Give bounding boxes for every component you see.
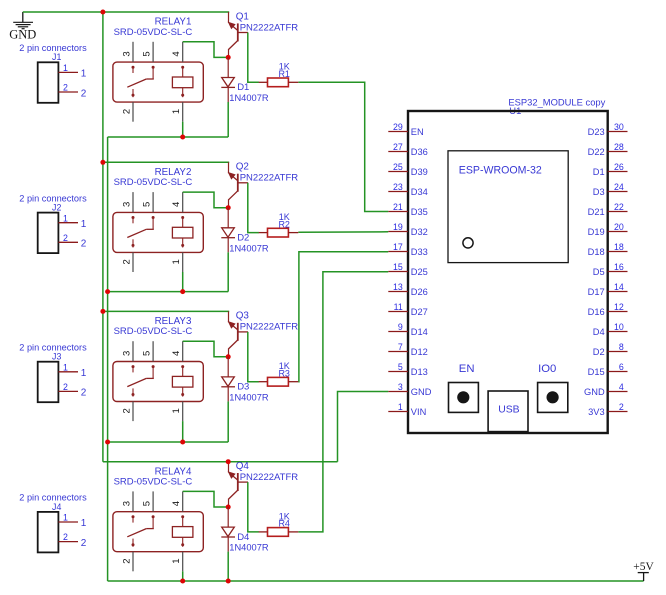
svg-text:GND: GND: [584, 387, 605, 397]
relay K3 pin 3: [121, 341, 133, 361]
ESP32 pin 21 D35: [388, 202, 428, 217]
ESP32 pin 28 D22: [588, 142, 628, 157]
svg-text:1: 1: [63, 513, 68, 523]
svg-text:24: 24: [614, 182, 624, 192]
connector J2 pin 1: [58, 213, 86, 230]
wire relay2 top rail: [103, 161, 229, 163]
svg-text:1: 1: [63, 362, 68, 372]
svg-text:D23: D23: [588, 127, 605, 137]
junction Q3 collector node: [226, 354, 231, 359]
connector J1 labels: [19, 43, 87, 62]
junction relay1 pin1 bottom: [180, 135, 185, 140]
resistor R3 1K: [259, 377, 299, 386]
svg-text:D15: D15: [588, 367, 605, 377]
svg-text:1: 1: [81, 518, 87, 529]
ESP-WROOM-32 pin-1 circle: [463, 238, 473, 248]
svg-text:Q1: Q1: [236, 11, 250, 22]
connector J4 pin 1: [58, 513, 86, 530]
wire net R2 to pin D32: [298, 231, 388, 233]
junction Q4 collector node: [226, 505, 231, 510]
connector J1 pin 1: [58, 63, 86, 80]
svg-text:D26: D26: [411, 287, 428, 297]
svg-text:VIN: VIN: [411, 407, 427, 417]
svg-text:1: 1: [63, 213, 68, 223]
ESP32 pin 18 D18: [588, 242, 628, 257]
resistor R1 labels: [278, 62, 290, 79]
ESP32 pin 1 VIN: [388, 402, 426, 417]
ESP32 pin 19 D32: [388, 222, 428, 237]
connector J1 body: [38, 62, 59, 103]
transistor Q3 labels: [236, 311, 299, 333]
svg-text:2: 2: [121, 558, 132, 563]
svg-text:29: 29: [393, 122, 403, 132]
junction bus A rail3: [100, 309, 105, 314]
relay K1 pin 3: [121, 42, 133, 62]
svg-text:3: 3: [121, 351, 132, 356]
relay K1 coil: [172, 66, 193, 98]
svg-text:7: 7: [398, 342, 403, 352]
diode D1 1N4007R: [221, 57, 235, 102]
svg-text:J1: J1: [52, 52, 61, 62]
svg-text:1N4007R: 1N4007R: [229, 243, 269, 253]
svg-text:USB: USB: [498, 404, 519, 415]
relay K4 coil: [172, 515, 193, 547]
wire relay2 pin1 drop: [182, 272, 184, 292]
relay K2 pin 1: [171, 252, 183, 272]
svg-text:25: 25: [393, 162, 403, 172]
svg-text:1N4007R: 1N4007R: [229, 392, 269, 402]
svg-text:4: 4: [171, 501, 182, 506]
svg-text:D33: D33: [411, 247, 428, 257]
svg-text:IO0: IO0: [538, 363, 556, 375]
wire D4 cathode drop: [227, 552, 229, 581]
wire net R3 to pin D33: [298, 252, 388, 382]
svg-text:PN2222ATFR: PN2222ATFR: [240, 173, 299, 184]
svg-text:D36: D36: [411, 147, 428, 157]
svg-text:D39: D39: [411, 167, 428, 177]
ESP32 pin 9 D14: [388, 322, 428, 337]
relay K3 pin 5: [141, 341, 153, 361]
svg-text:D27: D27: [411, 307, 428, 317]
ESP32 pin 3 GND: [388, 382, 431, 397]
wire vertical GND bus A: [102, 12, 104, 462]
svg-text:30: 30: [614, 122, 624, 132]
ESP32 pin 16 D5: [593, 262, 628, 277]
relay RELAY4 labels: [114, 466, 193, 487]
svg-text:16: 16: [614, 262, 624, 272]
svg-text:D22: D22: [588, 147, 605, 157]
svg-text:5: 5: [141, 501, 152, 506]
svg-text:19: 19: [393, 222, 403, 232]
IO0 button: [538, 363, 568, 412]
svg-text:1: 1: [171, 109, 182, 114]
svg-text:1: 1: [171, 408, 182, 413]
wire relay1 pin1 drop: [182, 122, 184, 137]
junction A top rail: [100, 10, 105, 15]
relay K4 switch contact: [127, 515, 154, 547]
wire GND top rail: [23, 11, 229, 13]
svg-text:28: 28: [614, 142, 624, 152]
relay K1 pin 2: [121, 102, 133, 122]
junction relay4 pin1 bottom: [180, 579, 185, 584]
svg-text:1: 1: [81, 368, 87, 379]
ESP32 pin 14 D17: [588, 282, 628, 297]
wire relay4 top rail: [103, 461, 338, 463]
relay K1 pin 4: [171, 42, 183, 62]
relay K2 pin 5: [141, 192, 153, 212]
svg-text:5: 5: [398, 362, 403, 372]
svg-text:Q2: Q2: [236, 162, 249, 173]
connector J3 pin 2: [58, 382, 86, 399]
ESP-WROOM-32 sub-module: [448, 151, 568, 263]
relay K3 pin 1: [171, 402, 183, 422]
ESP32 pin 23 D34: [388, 182, 428, 197]
connector J4 body: [38, 512, 59, 553]
relay K1 pin 1: [171, 102, 183, 122]
svg-text:PN2222ATFR: PN2222ATFR: [240, 472, 299, 483]
svg-text:D18: D18: [588, 247, 605, 257]
wire Q2 base to R2: [248, 183, 259, 233]
connector J3 labels: [19, 343, 87, 362]
junction Q4 emitter on rail: [226, 459, 231, 464]
svg-text:2: 2: [121, 109, 132, 114]
svg-text:D34: D34: [411, 187, 428, 197]
relay K3 body: [113, 362, 203, 402]
svg-text:2: 2: [81, 388, 87, 399]
svg-text:PN2222ATFR: PN2222ATFR: [240, 22, 299, 33]
ESP32 pin 26 D1: [593, 162, 628, 177]
ESP32 pin 4 GND: [584, 382, 627, 397]
EN button: [449, 363, 479, 412]
svg-text:EN: EN: [459, 363, 475, 375]
relay K4 pin 1: [171, 552, 183, 572]
relay K3 pin 4: [171, 341, 183, 361]
resistor R2 1K: [259, 228, 299, 237]
relay K3 pin 2: [121, 402, 133, 422]
diode D3 labels: [229, 382, 269, 403]
wire Q3 base to R3: [248, 332, 259, 382]
svg-text:5: 5: [141, 351, 152, 356]
resistor R4 labels: [278, 511, 290, 528]
svg-text:D1: D1: [237, 82, 249, 93]
svg-text:SRD-05VDC-SL-C: SRD-05VDC-SL-C: [114, 177, 193, 188]
ESP32 pin 29 EN: [388, 122, 423, 137]
svg-text:12: 12: [614, 302, 624, 312]
svg-text:D35: D35: [411, 207, 428, 217]
relay K4 pin 5: [141, 491, 153, 511]
svg-text:D32: D32: [411, 227, 428, 237]
relay RELAY2 labels: [114, 167, 193, 188]
svg-text:J2: J2: [52, 203, 61, 213]
ESP32 pin 2 3V3: [588, 402, 627, 417]
svg-text:ESP-WROOM-32: ESP-WROOM-32: [459, 165, 542, 177]
transistor Q2 PN2222ATFR: [228, 162, 248, 207]
connector J3 body: [38, 362, 59, 403]
relay K2 coil: [172, 216, 193, 248]
ESP32 pin 7 D12: [388, 342, 428, 357]
wire relay3 top rail: [103, 310, 229, 312]
wire D3 cathode drop: [227, 401, 229, 442]
wire D2 cathode drop: [227, 252, 229, 291]
wire net R4 to pin D25: [298, 272, 388, 532]
svg-text:5: 5: [141, 51, 152, 56]
svg-text:13: 13: [393, 282, 403, 292]
svg-text:SRD-05VDC-SL-C: SRD-05VDC-SL-C: [114, 326, 193, 337]
svg-text:23: 23: [393, 182, 403, 192]
USB connector: [488, 391, 528, 432]
svg-text:GND: GND: [9, 27, 36, 41]
svg-text:Q4: Q4: [236, 461, 250, 472]
resistor R4 1K: [259, 528, 299, 537]
wire net ESP32 GND to relay4 rail: [338, 392, 389, 462]
svg-text:D17: D17: [588, 287, 605, 297]
ESP32 pin 15 D25: [388, 262, 428, 277]
svg-text:4: 4: [619, 382, 624, 392]
svg-text:2: 2: [121, 408, 132, 413]
svg-text:18: 18: [614, 242, 624, 252]
svg-text:D4: D4: [237, 532, 249, 543]
diode D1 labels: [229, 82, 269, 103]
svg-text:21: 21: [393, 202, 403, 212]
svg-text:4: 4: [171, 202, 182, 207]
svg-text:4: 4: [171, 51, 182, 56]
ESP32 pin 12 D16: [588, 302, 628, 317]
svg-text:D4: D4: [593, 327, 605, 337]
resistor R3 labels: [278, 361, 290, 378]
svg-text:1N4007R: 1N4007R: [229, 93, 269, 103]
svg-text:1: 1: [398, 402, 403, 412]
relay K4 pin 3: [121, 491, 133, 511]
svg-text:3: 3: [398, 382, 403, 392]
svg-text:D5: D5: [593, 267, 605, 277]
svg-text:D2: D2: [237, 233, 249, 244]
svg-text:1: 1: [81, 69, 87, 80]
svg-text:22: 22: [614, 202, 624, 212]
svg-text:Q3: Q3: [236, 311, 250, 322]
ESP32 pin 5 D13: [388, 362, 428, 377]
svg-text:D12: D12: [411, 347, 428, 357]
svg-text:D3: D3: [237, 382, 249, 393]
transistor Q2 labels: [236, 162, 299, 184]
power +5V symbol: [633, 561, 654, 581]
ESP32 pin 17 D33: [388, 242, 428, 257]
svg-text:SRD-05VDC-SL-C: SRD-05VDC-SL-C: [114, 476, 193, 487]
relay K2 body: [113, 212, 203, 252]
svg-text:D13: D13: [411, 367, 428, 377]
svg-text:9: 9: [398, 322, 403, 332]
connector J2 pin 2: [58, 233, 86, 250]
wire Q4 base to R4: [248, 482, 259, 532]
transistor Q4 PN2222ATFR: [228, 462, 248, 507]
ESP32 pin 20 D19: [588, 222, 628, 237]
relay RELAY3 labels: [114, 316, 193, 337]
junction relay2 pin1 bottom: [180, 289, 185, 294]
relay K4 pin 4: [171, 491, 183, 511]
svg-text:2: 2: [81, 538, 87, 549]
svg-text:ESP32_MODULE copy: ESP32_MODULE copy: [508, 97, 605, 108]
connector J4 labels: [19, 493, 87, 512]
wire relay1 bottom net: [108, 136, 229, 138]
relay K1 body: [113, 62, 203, 102]
svg-text:27: 27: [393, 142, 403, 152]
relay K4 body: [113, 512, 203, 552]
svg-text:1: 1: [63, 63, 68, 73]
ESP32 pin 27 D36: [388, 142, 428, 157]
svg-text:11: 11: [394, 302, 403, 312]
wire +5V bottom rail: [108, 580, 644, 582]
relay K2 switch contact: [127, 216, 154, 248]
svg-text:3V3: 3V3: [588, 407, 605, 417]
transistor Q3 PN2222ATFR: [228, 311, 248, 356]
svg-text:PN2222ATFR: PN2222ATFR: [240, 322, 299, 333]
relay K2 pin 2: [121, 252, 133, 272]
svg-text:2: 2: [63, 83, 68, 93]
ESP32 module U1 body: [408, 111, 608, 433]
svg-text:D21: D21: [588, 207, 605, 217]
junction Q2 collector node: [226, 205, 231, 210]
svg-text:D16: D16: [588, 307, 605, 317]
junction bus B wire3: [105, 440, 110, 445]
ESP32 pin 24 D3: [593, 182, 628, 197]
connector J4 pin 2: [58, 532, 86, 549]
svg-text:GND: GND: [411, 387, 432, 397]
wire relay2 pin4 to Q2 collector: [183, 192, 229, 208]
connector J2 body: [38, 213, 59, 254]
svg-text:4: 4: [171, 351, 182, 356]
transistor Q1 labels: [236, 11, 299, 33]
svg-text:1: 1: [81, 219, 87, 230]
transistor Q1 PN2222ATFR: [228, 12, 248, 57]
relay K3 switch contact: [127, 365, 154, 397]
svg-text:2: 2: [63, 532, 68, 542]
svg-text:26: 26: [614, 162, 624, 172]
relay K2 pin 3: [121, 192, 133, 212]
wire relay4 pin4 to Q4 collector: [183, 491, 229, 507]
svg-text:EN: EN: [411, 127, 424, 137]
ESP32 pin 10 D4: [593, 322, 628, 337]
ESP32 pin 13 D26: [388, 282, 428, 297]
ESP32 pin 6 D15: [588, 362, 628, 377]
svg-text:6: 6: [619, 362, 624, 372]
diode D2 labels: [229, 233, 269, 254]
svg-text:14: 14: [614, 282, 624, 292]
svg-text:3: 3: [121, 51, 132, 56]
svg-text:1N4007R: 1N4007R: [229, 543, 269, 553]
wire relay3 bottom net: [108, 441, 229, 443]
svg-text:2: 2: [121, 259, 132, 264]
svg-text:+5V: +5V: [633, 561, 654, 573]
ESP32 pin 8 D2: [593, 342, 628, 357]
svg-text:D25: D25: [411, 267, 428, 277]
wire vertical +5V bus B: [107, 137, 109, 581]
junction D4 cathode bottom rail: [226, 579, 231, 584]
wire relay4 pin1 drop: [182, 571, 184, 581]
connector J2 labels: [19, 193, 87, 212]
svg-text:10: 10: [614, 322, 624, 332]
svg-text:D2: D2: [593, 347, 605, 357]
wire relay3 pin4 to Q3 collector: [183, 341, 229, 357]
resistor R2 labels: [278, 212, 290, 229]
ESP32 pin 22 D21: [588, 202, 628, 217]
relay K2 pin 4: [171, 192, 183, 212]
ESP32 pin 25 D39: [388, 162, 428, 177]
svg-text:D19: D19: [588, 227, 605, 237]
transistor Q4 labels: [236, 461, 299, 483]
junction Q1 collector node: [226, 55, 231, 60]
diode D3 1N4007R: [221, 357, 235, 402]
svg-text:1: 1: [171, 558, 182, 563]
wire relay3 pin1 drop: [182, 421, 184, 442]
svg-text:15: 15: [393, 262, 403, 272]
wire D1 cathode drop: [227, 102, 229, 137]
svg-text:3: 3: [121, 202, 132, 207]
relay K3 coil: [172, 365, 193, 397]
diode D4 labels: [229, 532, 269, 553]
relay RELAY1 labels: [114, 17, 193, 38]
svg-text:D14: D14: [411, 327, 428, 337]
wire Q1 base to R1: [248, 33, 259, 83]
svg-text:D3: D3: [593, 187, 605, 197]
svg-text:20: 20: [614, 222, 624, 232]
svg-text:17: 17: [393, 242, 403, 252]
relay K1 switch contact: [127, 66, 154, 98]
junction bus B wire2: [105, 289, 110, 294]
resistor R1 1K: [259, 78, 299, 87]
svg-text:1: 1: [171, 259, 182, 264]
svg-text:D1: D1: [593, 167, 605, 177]
svg-text:2: 2: [619, 402, 624, 412]
svg-text:2: 2: [81, 88, 87, 99]
ground GND symbol: [9, 12, 36, 41]
wire relay2 bottom net: [108, 291, 229, 293]
junction bus A rail2: [100, 160, 105, 165]
diode D2 1N4007R: [221, 208, 235, 253]
svg-text:2: 2: [81, 239, 87, 250]
relay K1 pin 5: [141, 42, 153, 62]
svg-text:8: 8: [619, 342, 624, 352]
relay K4 pin 2: [121, 552, 133, 572]
connector J3 pin 1: [58, 362, 86, 379]
svg-text:J4: J4: [52, 502, 61, 512]
ESP32 pin 11 D27: [388, 302, 428, 317]
ESP32 module U1 label: [508, 97, 605, 117]
svg-text:3: 3: [121, 501, 132, 506]
svg-text:2: 2: [63, 382, 68, 392]
diode D4 1N4007R: [221, 507, 235, 552]
svg-text:SRD-05VDC-SL-C: SRD-05VDC-SL-C: [114, 27, 193, 38]
svg-text:J3: J3: [52, 352, 61, 362]
svg-text:5: 5: [141, 202, 152, 207]
svg-text:2: 2: [63, 233, 68, 243]
ESP32 pin 30 D23: [588, 122, 628, 137]
junction relay3 pin1 bottom: [180, 440, 185, 445]
wire net R1 to pin D35: [298, 82, 388, 211]
wire relay1 pin4 to Q1 collector: [183, 42, 229, 58]
connector J1 pin 2: [58, 83, 86, 100]
